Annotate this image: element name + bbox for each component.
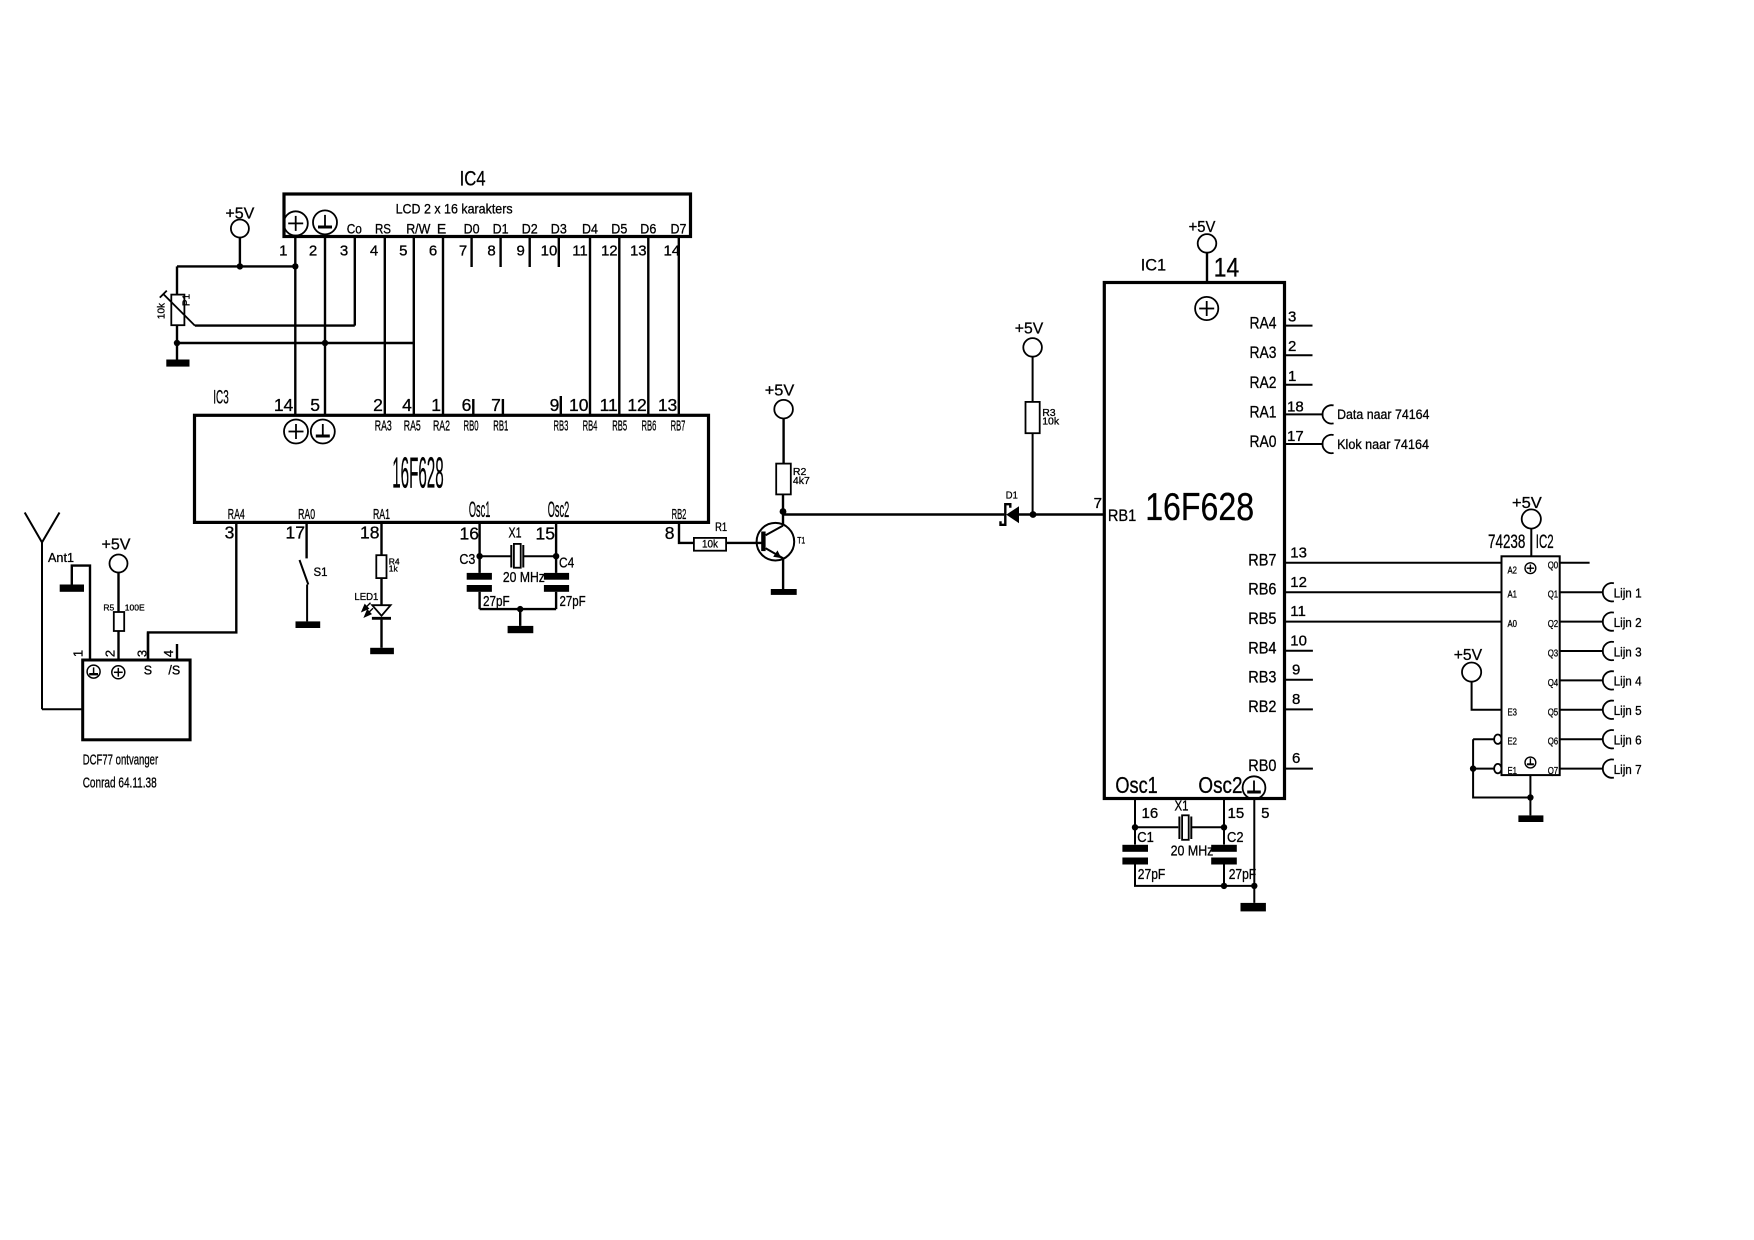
svg-text:2: 2	[1288, 338, 1296, 355]
svg-text:RB3: RB3	[1248, 667, 1276, 686]
svg-text:Lijn 3: Lijn 3	[1614, 645, 1642, 659]
svg-text:13: 13	[1290, 544, 1307, 561]
stub IC1 RA4	[1285, 325, 1313, 327]
svg-text:Lijn 4: Lijn 4	[1614, 675, 1642, 689]
svg-text:RB1: RB1	[1108, 506, 1136, 525]
wire IC3 RB2 pin8 to R1	[679, 522, 694, 543]
wire IC2 Q4 to Lijn 4	[1560, 679, 1603, 681]
svg-text:8: 8	[665, 523, 675, 543]
wire DCF77 pin3 vertical	[147, 632, 149, 660]
wire D1 to IC1 RB1	[1019, 513, 1105, 515]
IC3 top pin labels	[375, 418, 686, 434]
svg-text:4: 4	[402, 395, 412, 415]
inversion bubble E2	[1494, 735, 1501, 744]
wire C3 bottom to common	[478, 592, 480, 609]
svg-text:1: 1	[431, 395, 441, 415]
stub IC2 Q0	[1560, 562, 1590, 564]
svg-text:13: 13	[630, 243, 647, 260]
svg-text:9: 9	[517, 243, 525, 260]
resistor R5	[114, 612, 124, 631]
svg-text:3: 3	[1288, 309, 1296, 326]
svg-text:+5V: +5V	[765, 383, 795, 400]
+5V supply above R2	[765, 383, 795, 419]
junction LCD pin1	[292, 263, 298, 269]
svg-text:7: 7	[491, 395, 501, 415]
svg-text:A2: A2	[1508, 566, 1518, 577]
svg-text:11: 11	[1290, 603, 1306, 620]
resistor R2	[776, 464, 791, 495]
IC4 ground pin symbol	[313, 210, 337, 234]
svg-text:5: 5	[310, 395, 320, 415]
+5V supply for LCD	[225, 205, 254, 266]
svg-text:3: 3	[340, 243, 348, 260]
crystal X1 for IC3	[511, 544, 523, 568]
IC4 power pin symbol (+)	[284, 211, 308, 235]
junction ground to LCD pin2	[322, 340, 328, 346]
svg-text:C2: C2	[1227, 830, 1244, 846]
svg-text:27pF: 27pF	[483, 594, 510, 610]
wire T1 emitter to ground	[782, 558, 784, 589]
svg-text:11: 11	[600, 395, 618, 415]
svg-text:RA5: RA5	[404, 418, 421, 434]
IC1 right side RA pin numbers	[1287, 309, 1304, 445]
svg-text:Osc1: Osc1	[1115, 772, 1157, 798]
svg-text:9: 9	[1292, 661, 1300, 678]
svg-text:DCF77 ontvanger: DCF77 ontvanger	[83, 752, 159, 769]
transistor T1	[757, 523, 795, 561]
svg-text:1: 1	[1288, 368, 1296, 385]
wire LCD pin13 D6 to IC3 RB6	[647, 237, 649, 416]
IC4 pin name labels	[347, 221, 687, 237]
wire IC2 Q7 to Lijn 7	[1560, 768, 1603, 770]
wire IC1 RA1 data out	[1285, 413, 1324, 415]
wire IC2 Q3 to Lijn 3	[1560, 650, 1603, 652]
svg-text:3: 3	[225, 523, 235, 543]
junction C1 node	[1132, 824, 1138, 830]
wire R5 to DCF77 pin2	[117, 631, 119, 660]
IC3 bottom pin numbers	[225, 523, 675, 544]
connector arc Q3	[1603, 642, 1614, 660]
junction E1 tap	[1470, 765, 1476, 771]
connector arc RA1	[1322, 405, 1333, 423]
stub IC3 RB0	[472, 399, 474, 415]
IC3 ground pin symbol	[311, 420, 335, 444]
IC2 output labels	[1548, 560, 1559, 777]
svg-text:D1: D1	[1006, 489, 1018, 501]
wire LCD pin14 D7 to IC3 RB7	[678, 237, 680, 416]
svg-text:Lijn 7: Lijn 7	[1614, 763, 1642, 777]
DCF77 receiver box	[83, 660, 190, 740]
junction pin5 ground	[1251, 883, 1257, 889]
IC2 ground pin symbol	[1525, 757, 1536, 768]
+5V supply for E3	[1454, 647, 1483, 682]
wire LCD pin1 to IC3 pin14	[294, 237, 296, 416]
svg-text:Q6: Q6	[1548, 737, 1559, 748]
svg-text:A1: A1	[1508, 590, 1518, 601]
wire to IC2 E1	[1473, 768, 1494, 770]
svg-text:1: 1	[279, 243, 287, 260]
junction Osc2 node	[553, 553, 559, 559]
stub LCD pin8 D1	[499, 237, 501, 268]
IC1 power pin symbol (+)	[1195, 297, 1218, 320]
svg-text:18: 18	[1287, 398, 1304, 415]
wire R3 to +5V	[1032, 357, 1034, 402]
IC2 input labels	[1508, 566, 1518, 778]
svg-text:Conrad 64.11.38: Conrad 64.11.38	[83, 775, 157, 792]
wire IC1 pin5 to ground rail	[1253, 799, 1255, 903]
IC1 right side RA labels	[1250, 314, 1277, 451]
svg-text:+5V: +5V	[102, 537, 131, 554]
svg-text:X1: X1	[1175, 797, 1189, 814]
wire E2 E1 to ground rail	[1473, 739, 1530, 797]
svg-text:LCD 2 x 16 karakters: LCD 2 x 16 karakters	[396, 200, 513, 216]
svg-text:+5V: +5V	[1512, 495, 1542, 512]
stub LCD pin10 D3	[558, 237, 560, 268]
svg-text:14: 14	[1214, 253, 1239, 283]
IC1 bottom pin numbers	[1142, 805, 1270, 822]
svg-text:7: 7	[1094, 495, 1102, 512]
wire LCD pin6 E to IC3 RA2	[442, 237, 444, 416]
svg-text:10: 10	[1290, 632, 1307, 649]
wire DCF77 pin1 to ground	[72, 566, 90, 660]
wire LCD pin11 D4 to IC3 RB4	[589, 237, 591, 416]
wire R2 to +5V	[782, 418, 784, 463]
svg-text:Q0: Q0	[1548, 560, 1559, 571]
DCF77 ground pin symbol	[87, 665, 100, 678]
stub IC1 RB2	[1285, 708, 1313, 710]
potentiometer P1 body	[171, 295, 184, 326]
svg-text:15: 15	[536, 524, 555, 544]
stub IC1 RB3	[1285, 679, 1313, 681]
wire +5V rail to LCD pin1 and P1 top	[177, 265, 295, 267]
wire IC3 RA4 to DCF77 pin3	[148, 522, 236, 660]
wire R3 to junction	[1032, 433, 1034, 514]
svg-text:D5: D5	[611, 221, 627, 237]
svg-text:RA0: RA0	[298, 507, 315, 523]
svg-text:Lijn 1: Lijn 1	[1614, 587, 1642, 601]
connector arc RA0	[1322, 435, 1333, 453]
svg-text:Data naar 74164: Data naar 74164	[1337, 407, 1430, 422]
svg-text:RA4: RA4	[228, 507, 245, 523]
svg-text:Lijn 2: Lijn 2	[1614, 616, 1642, 630]
svg-text:A0: A0	[1508, 619, 1518, 630]
svg-text:Lijn 6: Lijn 6	[1614, 734, 1642, 748]
svg-text:+5V: +5V	[1189, 219, 1216, 236]
LCD module IC4 box	[284, 168, 691, 237]
wire caps common to ground	[480, 608, 556, 610]
wire IC1 Osc2 pin15 down	[1223, 799, 1225, 845]
LED1 diode triangle	[372, 605, 390, 616]
svg-text:IC4: IC4	[460, 168, 486, 191]
stub LCD pin9 D2	[529, 237, 531, 268]
wire IC3 Osc2 pin15 down	[555, 522, 557, 573]
svg-text:RA1: RA1	[1250, 402, 1277, 421]
stub IC3 RB3	[560, 396, 562, 415]
svg-text:10k: 10k	[156, 302, 167, 319]
ground symbol below P1	[166, 360, 189, 367]
wire C4 bottom to common	[555, 592, 557, 609]
svg-text:RA1: RA1	[373, 507, 390, 523]
wire IC2 Q5 to Lijn 5	[1560, 709, 1603, 711]
wire Osc1 to crystal X1	[480, 555, 512, 557]
stub IC1 RA2	[1285, 384, 1313, 386]
svg-text:IC1: IC1	[1141, 256, 1166, 275]
ground below T1	[771, 589, 797, 595]
svg-text:Osc2: Osc2	[548, 497, 570, 522]
crystal X1 for IC1	[1179, 815, 1191, 840]
IC1 right side RB pin numbers	[1290, 544, 1307, 767]
svg-text:+5V: +5V	[1454, 647, 1483, 664]
svg-text:6: 6	[429, 243, 437, 260]
wire T1 collector to diode D1	[783, 513, 1004, 515]
diode D1 (schottky)	[1001, 504, 1020, 525]
svg-text:18: 18	[360, 523, 379, 543]
IC3 top pin numbers	[274, 395, 677, 415]
stub IC3 RB1	[502, 399, 504, 415]
svg-text:RB6: RB6	[1248, 580, 1276, 599]
svg-text:RB2: RB2	[672, 507, 687, 523]
wire to IC2 E2	[1473, 738, 1494, 740]
svg-text:RB3: RB3	[554, 418, 569, 434]
svg-text:RB6: RB6	[642, 418, 657, 434]
junction +5V tap	[237, 263, 243, 269]
wire IC1 RB7 to IC2 A2	[1285, 562, 1502, 564]
svg-text:Osc2: Osc2	[1198, 772, 1242, 798]
svg-text:14: 14	[274, 395, 294, 415]
svg-text:RB7: RB7	[1248, 550, 1276, 569]
svg-text:RB0: RB0	[1248, 756, 1276, 775]
svg-text:Co: Co	[347, 221, 362, 237]
microcontroller IC3 16F628 box	[195, 388, 709, 523]
svg-text:RA0: RA0	[1250, 432, 1277, 451]
svg-text:Q7: Q7	[1548, 766, 1559, 777]
wire IC1 RB6 to IC2 A1	[1285, 591, 1502, 593]
LED1 emission arrows	[362, 603, 373, 617]
wire LCD pin12 D5 to IC3 RB5	[618, 237, 620, 416]
svg-text:D3: D3	[551, 221, 567, 237]
svg-text:D7: D7	[671, 221, 687, 237]
svg-text:10k: 10k	[1042, 416, 1060, 428]
svg-text:6: 6	[1292, 750, 1300, 767]
svg-text:R5: R5	[103, 603, 114, 613]
svg-text:10: 10	[541, 243, 558, 260]
svg-text:16: 16	[460, 524, 479, 544]
svg-text:/S: /S	[168, 664, 180, 678]
stub IC1 RB0	[1285, 768, 1313, 770]
ground below IC2	[1518, 815, 1543, 822]
wire IC2 Q1 to Lijn 1	[1560, 591, 1603, 593]
svg-text:RB1: RB1	[493, 418, 508, 434]
wire LCD pin4 RS to IC3 RA3	[384, 237, 386, 416]
svg-text:16F628: 16F628	[1145, 486, 1254, 529]
ground below IC1 crystal	[1241, 903, 1266, 912]
svg-text:Q5: Q5	[1548, 707, 1559, 718]
ground below S1	[296, 621, 321, 628]
IC2 power pin symbol (+)	[1525, 563, 1536, 574]
junction IC2 ground node	[1527, 794, 1533, 800]
svg-text:D2: D2	[522, 221, 538, 237]
svg-text:74238: 74238	[1488, 532, 1525, 553]
svg-text:RB5: RB5	[612, 418, 627, 434]
+5V supply above IC1	[1189, 219, 1217, 283]
junction caps ground node	[517, 606, 523, 612]
wire down to P1	[176, 266, 178, 294]
wire IC1 Osc1 pin16 down	[1134, 799, 1136, 845]
svg-text:RA2: RA2	[1250, 373, 1277, 392]
DCF77 power pin symbol (+)	[112, 666, 125, 679]
svg-text:LED1: LED1	[354, 591, 378, 603]
svg-text:RB4: RB4	[583, 418, 598, 434]
wire C2 bottom to ground rail	[1223, 865, 1225, 886]
svg-text:S1: S1	[314, 565, 328, 579]
wire P1 bottom to ground	[176, 325, 178, 359]
svg-text:RB5: RB5	[1248, 609, 1276, 628]
svg-text:E1: E1	[1508, 766, 1518, 777]
svg-text:100E: 100E	[125, 603, 145, 613]
svg-text:17: 17	[286, 523, 305, 543]
junction C2 node	[1221, 824, 1227, 830]
svg-text:10k: 10k	[702, 539, 718, 551]
IC3 power pin symbol (+)	[284, 420, 308, 444]
svg-text:RB2: RB2	[1248, 697, 1276, 716]
microcontroller IC1 16F628 box	[1104, 256, 1284, 799]
connector arc Q6	[1603, 730, 1614, 748]
wire C1 node to crystal	[1135, 826, 1178, 828]
IC1 ground pin symbol	[1243, 776, 1266, 799]
wire C1 bottom to ground rail	[1135, 865, 1254, 886]
svg-text:11: 11	[572, 243, 588, 260]
+5V supply for DCF77	[102, 537, 131, 612]
svg-text:3: 3	[134, 650, 149, 657]
svg-text:2: 2	[309, 243, 317, 260]
svg-text:RB4: RB4	[1248, 638, 1276, 657]
svg-text:20 MHz: 20 MHz	[503, 570, 545, 586]
wire T1 collector to R2	[782, 494, 784, 525]
connector arc Q1	[1603, 583, 1614, 601]
svg-text:Q4: Q4	[1548, 678, 1559, 689]
svg-text:27pF: 27pF	[1229, 867, 1257, 883]
svg-text:E: E	[437, 221, 446, 237]
+5V supply above IC2	[1512, 495, 1542, 556]
svg-text:Q3: Q3	[1548, 649, 1559, 660]
connector arc Q5	[1603, 701, 1614, 719]
antenna Ant1	[25, 513, 83, 710]
wire IC2 ground pin down	[1529, 775, 1531, 815]
wire wiper to LCD Co pin	[195, 324, 355, 326]
stub LCD pin7 D0	[470, 237, 472, 268]
svg-text:R1: R1	[715, 520, 727, 534]
switch S1	[300, 560, 309, 621]
svg-text:2: 2	[102, 650, 117, 657]
svg-text:D1: D1	[493, 221, 509, 237]
svg-text:T1: T1	[797, 535, 805, 545]
svg-text:X1: X1	[509, 525, 522, 542]
svg-text:R/W: R/W	[406, 221, 431, 237]
wire IC3 RA1 to R4	[380, 522, 382, 555]
svg-text:C4: C4	[559, 556, 574, 572]
svg-text:Klok naar 74164: Klok naar 74164	[1337, 437, 1429, 452]
connector arc Q4	[1603, 671, 1614, 689]
svg-text:2: 2	[373, 395, 383, 415]
resistor R3	[1026, 402, 1040, 433]
wire crystal to C2 node	[1191, 826, 1224, 828]
IC3 bottom pin labels	[228, 507, 687, 523]
wire IC3 RA0 to switch S1	[305, 522, 307, 558]
wire IC2 Q2 to Lijn 2	[1560, 621, 1603, 623]
connector arc Q2	[1603, 612, 1614, 630]
ground stem below crystal	[519, 609, 521, 626]
svg-text:Q2: Q2	[1548, 619, 1559, 630]
potentiometer P1 wiper arrow	[160, 291, 195, 326]
stub IC1 RA3	[1285, 354, 1313, 356]
svg-text:Ant1: Ant1	[48, 551, 74, 565]
wire LCD pin3 Co down to pot wiper	[354, 237, 356, 326]
stub IC1 RB4	[1285, 650, 1313, 652]
wire IC3 Osc1 pin16 down	[478, 522, 480, 573]
svg-text:S: S	[144, 664, 152, 678]
svg-text:15: 15	[1228, 805, 1245, 822]
wire LCD pin5 R/W to IC3 RA5	[413, 237, 415, 416]
svg-text:4k7: 4k7	[793, 475, 810, 487]
wire crystal X1 to Osc2	[523, 555, 556, 557]
svg-text:C1: C1	[1137, 830, 1154, 846]
svg-text:D6: D6	[640, 221, 656, 237]
svg-text:1: 1	[71, 650, 86, 657]
wire IC2 Q6 to Lijn 6	[1560, 738, 1603, 740]
svg-text:12: 12	[1290, 574, 1307, 591]
inversion bubble E1	[1494, 764, 1501, 773]
svg-text:E3: E3	[1508, 707, 1518, 718]
svg-text:P1: P1	[182, 293, 193, 306]
capacitor C3	[467, 573, 492, 592]
svg-text:27pF: 27pF	[1138, 867, 1166, 883]
svg-text:Lijn 5: Lijn 5	[1614, 704, 1642, 718]
svg-text:4: 4	[370, 243, 378, 260]
wire R4 to LED1	[380, 578, 382, 605]
svg-text:RA4: RA4	[1250, 314, 1277, 333]
svg-text:IC2: IC2	[1536, 532, 1554, 553]
svg-text:20 MHz: 20 MHz	[1171, 844, 1214, 860]
capacitor C4	[544, 573, 569, 592]
svg-text:8: 8	[487, 243, 495, 260]
svg-text:Q1: Q1	[1548, 590, 1559, 601]
svg-text:12: 12	[601, 243, 618, 260]
svg-text:RA2: RA2	[433, 418, 450, 434]
svg-text:6: 6	[462, 395, 472, 415]
svg-text:16: 16	[1142, 805, 1159, 822]
ground for DCF77 pin1	[60, 585, 84, 592]
svg-text:17: 17	[1287, 428, 1304, 445]
stub DCF77 pin4	[176, 644, 178, 660]
junction C2 ground	[1221, 883, 1227, 889]
junction Osc1 node	[476, 553, 482, 559]
svg-text:D4: D4	[582, 221, 598, 237]
svg-text:RS: RS	[375, 221, 391, 237]
IC1 right side RB labels	[1248, 550, 1276, 775]
wire LCD pin2 to IC3 pin5	[324, 237, 326, 416]
svg-text:IC3: IC3	[213, 388, 228, 409]
svg-text:RB7: RB7	[671, 418, 686, 434]
svg-text:+5V: +5V	[1015, 321, 1044, 338]
junction D1 R3 node	[1030, 511, 1037, 518]
svg-text:5: 5	[399, 243, 407, 260]
svg-text:D0: D0	[464, 221, 480, 237]
demultiplexer IC2 74238 box	[1488, 532, 1560, 775]
resistor R4	[376, 555, 386, 578]
svg-text:10: 10	[569, 395, 589, 415]
IC4 pin numbers 1-14	[279, 243, 680, 260]
capacitor C2	[1211, 845, 1237, 865]
